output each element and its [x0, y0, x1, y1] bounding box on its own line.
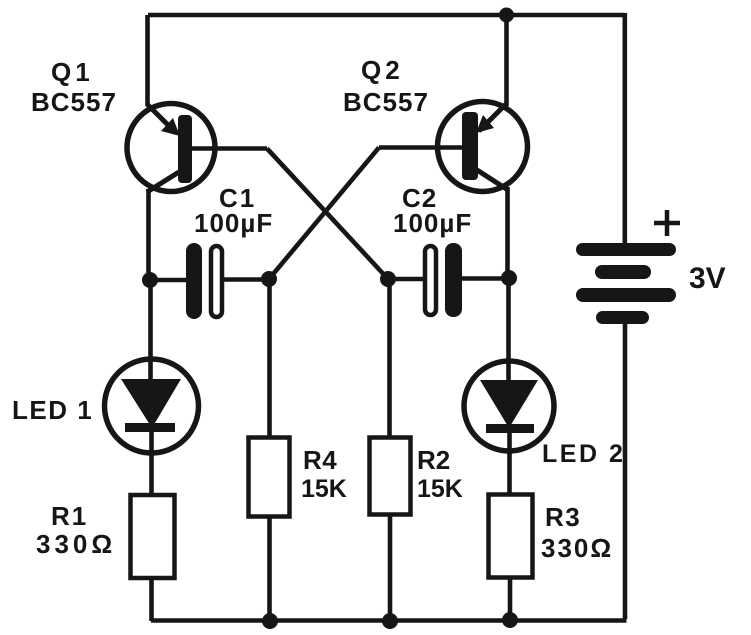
svg-text:R2: R2 — [417, 445, 450, 475]
wire C2 left lead — [388, 277, 425, 282]
battery B1 3V — [576, 243, 676, 324]
capacitor C2 — [425, 243, 462, 317]
wire R1 bottom lead — [149, 577, 154, 621]
wire Q1 emitter lead — [145, 15, 150, 106]
svg-text:330Ω: 330Ω — [541, 533, 613, 563]
resistor R3 — [489, 495, 533, 578]
resistor R1 — [131, 495, 175, 578]
junction node C1 right / R4 top — [261, 271, 277, 287]
svg-text:LED 1: LED 1 — [12, 395, 93, 425]
wire bottom rail — [151, 618, 627, 623]
wire Q1 base cross-coupling diagonal to C2/R2 node — [267, 149, 388, 280]
wire node C1/R4 down lead — [267, 279, 272, 438]
resistor R2 — [370, 438, 411, 515]
svg-text:BC557: BC557 — [31, 87, 117, 117]
wire Q1 base lead — [192, 146, 267, 151]
wire node C2/R2 down lead — [387, 279, 392, 438]
wire Q2 base lead — [379, 145, 462, 150]
junction node bottom rail / R4 — [262, 613, 278, 629]
svg-text:15K: 15K — [301, 475, 347, 503]
wire R3 bottom lead — [508, 577, 513, 620]
LED1 — [105, 359, 199, 453]
wire R4 bottom lead — [267, 516, 272, 621]
transistor Q2 — [438, 102, 528, 192]
svg-text:R1: R1 — [51, 501, 88, 531]
svg-text:Q1: Q1 — [51, 57, 94, 87]
wire battery - to bottom-right corner — [623, 324, 628, 619]
wire R2 bottom lead — [388, 514, 393, 621]
wire top rail — [148, 13, 625, 18]
junction node bottom rail / R2 — [382, 613, 398, 629]
capacitor C1 — [186, 243, 222, 319]
junction node C2 right / Q2 collector — [501, 270, 517, 286]
svg-text:3V: 3V — [689, 262, 726, 295]
wire LED2 anode lead — [506, 278, 511, 381]
transistor Q1 — [127, 104, 215, 193]
wire C1 right lead — [222, 277, 270, 282]
wire Q1 collector lead — [146, 189, 151, 280]
battery plus symbol — [654, 210, 680, 236]
wire Q2 base cross-coupling diagonal to C1/R4 node — [269, 148, 379, 280]
junction node Q1 collector / C1 left — [142, 272, 158, 288]
wire C1 left lead — [150, 278, 187, 283]
junction node C2 left / R2 top — [380, 271, 396, 287]
LED2 — [464, 361, 554, 451]
svg-text:100µF: 100µF — [393, 208, 472, 238]
svg-text:R3: R3 — [545, 502, 581, 532]
svg-text:R4: R4 — [303, 445, 337, 475]
svg-text:LED 2: LED 2 — [542, 440, 625, 468]
svg-text:330Ω: 330Ω — [36, 529, 116, 559]
wire Q2 collector lead — [505, 187, 510, 278]
wire right drop from top rail to battery + — [622, 13, 627, 243]
svg-text:Q2: Q2 — [361, 55, 404, 85]
wire LED1 anode lead — [148, 280, 153, 381]
junction node top rail / Q2 emitter — [499, 8, 514, 23]
svg-text:BC557: BC557 — [343, 87, 429, 117]
resistor R4 — [249, 438, 290, 517]
svg-text:15K: 15K — [417, 475, 463, 503]
wire C2 right lead — [461, 276, 509, 281]
wire Q2 emitter lead — [504, 15, 509, 106]
svg-text:100µF: 100µF — [194, 208, 273, 238]
wire LED2 cathode to R3 — [507, 430, 512, 495]
wire LED1 cathode to R1 — [149, 430, 154, 496]
junction node bottom rail / R3 — [502, 612, 518, 628]
